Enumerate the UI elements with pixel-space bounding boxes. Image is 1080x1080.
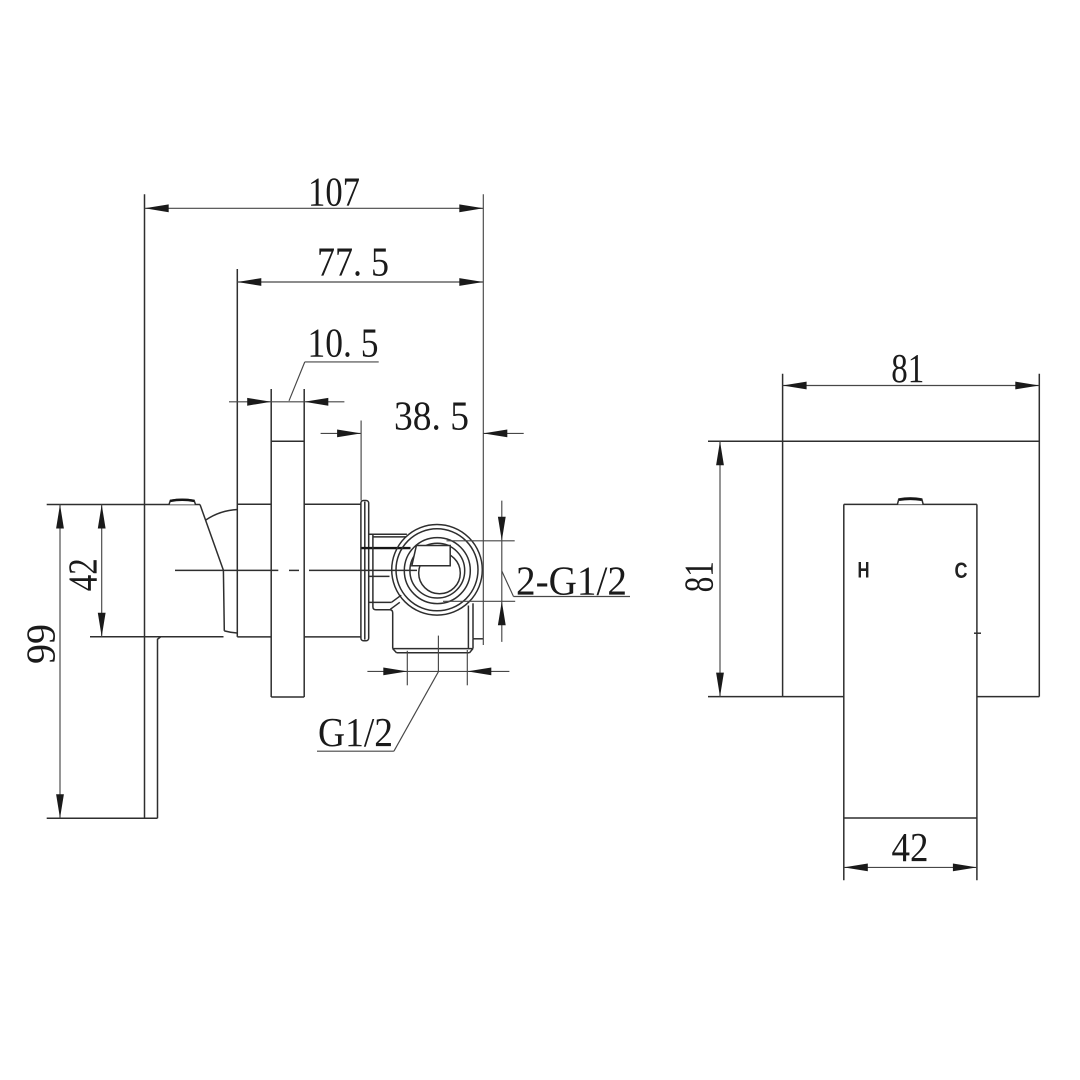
body bottom edge upper (393, 648, 473, 650)
handle block right edge lower (222, 570, 225, 631)
dimension 81 left line (719, 441, 721, 696)
port keyway rectangle (412, 546, 450, 566)
escutcheon sleeve left edge + 77.5 extension (236, 269, 238, 637)
valve body bottom edge (plate to flange) (304, 636, 361, 638)
dimension 38.5 extension line left (360, 421, 362, 501)
mounting flange (361, 501, 369, 641)
strut diagonal lower (390, 602, 400, 609)
svg-text:42: 42 (60, 558, 106, 591)
cartridge dome arc top (206, 510, 238, 521)
wall plate top edge (271, 440, 304, 442)
mounting flange inner line (364, 502, 366, 640)
dimension 10.5 arrows (outside) (247, 398, 271, 406)
body bottom edge lower (397, 652, 470, 654)
port circle 2 (396, 529, 478, 611)
dimension 42 line (left view) (101, 505, 103, 637)
dimension 81 top line (783, 385, 1040, 387)
outlet extension lines (406, 651, 408, 686)
cartridge dome arc bottom (224, 631, 237, 633)
dimension 99 line (59, 505, 61, 819)
escutcheon sleeve top edge (237, 503, 271, 505)
port bore circle (419, 552, 461, 594)
handle block diagonal right edge (200, 505, 223, 571)
handle left edge + 42 extension (843, 504, 845, 880)
svg-text:H: H (858, 557, 870, 582)
G1/2 leader diagonal (394, 672, 439, 752)
G1/2 underline (317, 750, 394, 752)
small tick on handle right edge (974, 632, 981, 634)
dimension 38.5 right tail + arrow (483, 432, 523, 434)
body right boss vertical (472, 603, 474, 639)
dimension 107 arrows (145, 204, 169, 212)
body bottom chamfer left (393, 649, 397, 653)
neck top line 2 (373, 536, 406, 538)
strut diagonal upper (392, 595, 402, 602)
dimension 2-G1/2 leader + underline (502, 571, 514, 597)
dimension 2-G1/2 arrows (498, 517, 506, 541)
neck lower line 1 (369, 575, 390, 577)
plate left edge + extension (782, 374, 784, 697)
wall plate right edge + 10.5 extension (303, 389, 305, 697)
neck lower line 2 (369, 601, 392, 603)
escutcheon sleeve bottom edge (237, 636, 271, 638)
svg-text:G1/2: G1/2 (318, 709, 393, 755)
wall plate bottom edge (271, 696, 304, 698)
svg-text:10. 5: 10. 5 (308, 319, 379, 365)
handle button bump (897, 498, 923, 505)
dimension 81 top arrows (783, 382, 807, 390)
svg-text:99: 99 (18, 624, 64, 664)
center line (175, 569, 417, 571)
svg-text:107: 107 (308, 169, 360, 215)
svg-text:42: 42 (892, 824, 929, 870)
valve body top edge (plate to flange) (304, 503, 361, 505)
outlet dimension arrows (outside) (383, 668, 407, 676)
body inner vertical line (467, 606, 469, 649)
port circle 4 (410, 543, 465, 598)
handle bottom edge (844, 817, 977, 819)
dimension 77.5 arrows (237, 278, 261, 286)
dimension 42 arrows (98, 505, 106, 529)
neck back edge and body lower-left outline (373, 534, 393, 648)
dimension 38.5 left tail + arrow (321, 432, 362, 434)
extension line right shared (107/77.5/38.5) (482, 194, 484, 645)
plate right edge + extension (1038, 374, 1040, 697)
dimension 107 line (145, 207, 484, 209)
dimension 10.5 line (229, 401, 344, 403)
port circle 3 (404, 538, 470, 604)
dimension 42 bottom arrows (844, 864, 868, 872)
svg-text:77. 5: 77. 5 (317, 239, 389, 285)
inlet pipe dark line (362, 547, 411, 549)
dimension 2-G1/2 vertical line (501, 501, 503, 642)
port outer circle (392, 525, 483, 616)
wall plate left edge + 10.5 extension (270, 389, 272, 697)
body bottom chamfer right (470, 649, 473, 653)
svg-text:81: 81 (676, 561, 722, 592)
svg-text:38. 5: 38. 5 (394, 393, 469, 439)
neck top line 1 (369, 533, 407, 535)
dimension 10.5 leader (289, 362, 305, 401)
plate top edge + extension left (708, 440, 1039, 442)
handle block top edge + extension to left (47, 504, 200, 506)
G1/2 leader vertical (437, 636, 439, 672)
dimension 81 left arrows (716, 441, 724, 465)
body right step horizontal (473, 638, 483, 640)
svg-text:2-G1/2: 2-G1/2 (516, 558, 627, 604)
lever right edge (158, 637, 161, 819)
outlet dimension line (367, 670, 509, 672)
svg-text:C: C (955, 558, 968, 583)
dimension 77.5 line (237, 281, 483, 283)
handle top button bump (169, 499, 196, 504)
svg-text:81: 81 (891, 345, 924, 391)
plate bottom edge + extension left (interrupted by handle) (708, 696, 844, 698)
handle top edge (844, 503, 977, 505)
handle block bottom edge + extension to left (90, 636, 224, 638)
handle right edge + 42 extension (976, 504, 978, 880)
dimension 42 bottom line (844, 866, 977, 868)
lever bottom edge + 99 extension line (47, 817, 158, 819)
body right step vertical (472, 639, 474, 649)
dimension 2-G1/2 extension lines (447, 540, 515, 542)
handle block left edge + extension line (144, 194, 146, 818)
dimension 99 arrows (56, 505, 64, 529)
